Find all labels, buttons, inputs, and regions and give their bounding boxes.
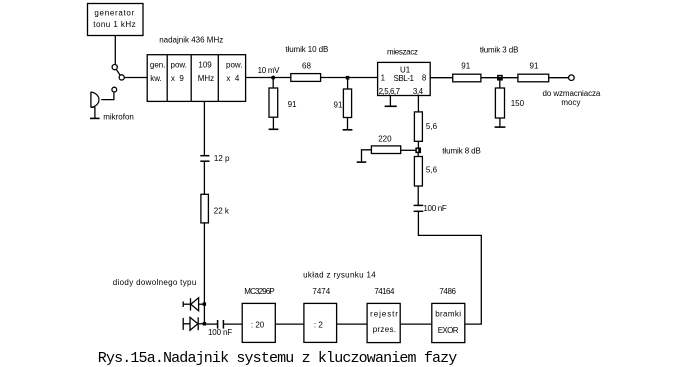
capacitor 100 nF vertical [414,204,447,213]
wire diode node to capacitor 100 nF [204,323,217,325]
svg-text:mikrofon: mikrofon [103,113,134,122]
svg-text:5,6: 5,6 [426,166,438,175]
EXOR gates 7486 box [432,287,465,343]
wire tap to resistor 5,6 lower [417,152,419,156]
svg-text:2,5,6,7: 2,5,6,7 [379,87,401,96]
nadajnik block U2 [147,55,245,102]
svg-text:3,4: 3,4 [413,87,424,96]
ground under resistor 220 [357,161,367,163]
svg-text:220: 220 [378,134,392,143]
wire resistor 68 to mixer [321,77,378,79]
svg-text:7474: 7474 [312,287,330,296]
series resistor 91 fourth [518,62,549,82]
wire capacitor to MC3296P box [223,323,242,325]
svg-text:mieszacz: mieszacz [387,48,418,57]
diode D1 top pointing left [183,298,203,311]
svg-text:150: 150 [511,99,525,108]
output terminal circle [569,75,575,81]
switch S1 [112,65,124,81]
shift register 74164 box [367,287,400,343]
wire resistor 220 to ground [362,150,372,162]
svg-text:74164: 74164 [374,287,395,296]
svg-text:: 20: : 20 [251,320,265,329]
mixer ground pin 2,5,6,7 [385,96,397,107]
svg-text:przes.: przes. [373,325,397,334]
wire capacitor to EXOR gates [418,211,481,324]
svg-text:pow.: pow. [226,60,242,69]
junction dot diode D1 [203,302,206,305]
divider MC3296P box [242,287,275,342]
shunt resistor 91 first [269,80,297,129]
svg-text:rejestr: rejestr [370,309,399,318]
svg-text:91: 91 [288,100,297,109]
svg-text:x 9: x 9 [171,74,184,83]
svg-text:91: 91 [334,100,343,109]
svg-text:diody dowolnego typu: diody dowolnego typu [113,278,197,287]
svg-text:: 2: : 2 [314,320,323,329]
svg-text:pow.: pow. [171,60,187,69]
svg-text:nadajnik 436 MHz: nadajnik 436 MHz [159,36,223,45]
resistor 5,6 lower [414,157,437,187]
svg-text:68: 68 [302,61,311,70]
wire nadajnik 109 MHz down [203,101,205,155]
svg-text:generator: generator [94,8,135,17]
junction square at 8 dB tap [416,148,420,152]
wire MC3296P to 7474 [275,323,304,325]
svg-text:100 nF: 100 nF [423,204,447,213]
svg-text:12 p: 12 p [214,154,230,163]
wire 74164 to 7486 [400,323,432,325]
capacitor 12 p [200,154,230,163]
svg-text:91: 91 [530,62,539,71]
junction dot at 10 mV node [271,76,275,80]
svg-text:układ z rysunku 14: układ z rysunku 14 [303,270,376,279]
svg-text:22 k: 22 k [214,207,230,216]
series resistor 91 third [453,62,481,82]
do wzmacniacza mocy label [543,89,601,107]
ground under resistor 91 second [343,129,353,131]
shunt resistor 91 second [334,80,352,130]
resistor 5,6 upper [414,112,437,141]
svg-text:100 nF: 100 nF [208,328,232,337]
svg-text:bramki: bramki [435,309,461,318]
svg-text:do wzmacniacza: do wzmacniacza [543,89,601,98]
wire resistor 5,6 lower to capacitor [417,186,419,205]
generator box G1 [88,4,144,36]
wire resistor 5,6 upper to tap [417,141,419,148]
wire generator to switch [114,36,116,65]
wire capacitor 12p to resistor 22k [203,161,205,194]
wire nadajnik to resistor 68 [246,77,291,79]
wire 7474 to 74164 [337,323,368,325]
svg-text:109: 109 [198,60,212,69]
wire resistor 22k down to diode node [203,223,205,324]
ground under resistor 91 first [269,128,279,130]
svg-text:EXOR: EXOR [438,326,459,335]
svg-text:SBL-1: SBL-1 [394,74,415,83]
junction dot before shunt resistor 91 second [346,76,350,80]
svg-text:x 4: x 4 [226,74,239,83]
junction square at attenuator tap [497,76,502,81]
resistor 220 [371,134,416,153]
mixer U1 SBL-1 [378,62,431,95]
svg-text:7486: 7486 [439,287,456,296]
svg-text:Rys.15a.Nadajnik systemu z klu: Rys.15a.Nadajnik systemu z kluczowaniem … [98,350,458,367]
svg-text:tłumik 3 dB: tłumik 3 dB [480,45,518,54]
svg-text:1: 1 [381,74,386,83]
ground under resistor 150 [495,126,506,128]
divider 7474 box [304,287,337,342]
wire mixer pin 8 to attenuator [430,77,453,79]
wire mic contact to microphone [101,92,114,100]
svg-text:tonu 1 kHz: tonu 1 kHz [93,20,136,29]
mic contact node [112,87,117,92]
resistor 22 k [201,194,230,223]
svg-text:MC3296P: MC3296P [244,287,274,296]
svg-text:gen.: gen. [150,60,166,69]
svg-text:5,6: 5,6 [426,122,438,131]
svg-text:MHz: MHz [198,74,214,83]
wire resistor 91 third to fourth [481,77,518,79]
wire switch to nadajnik box [124,77,147,79]
resistor 68 [291,61,321,81]
svg-text:mocy: mocy [561,98,580,107]
wire resistor 91 fourth to output terminal [549,77,569,79]
diode D2 bottom pointing right [183,317,203,330]
svg-text:91: 91 [461,62,470,71]
svg-text:tłumik 8 dB: tłumik 8 dB [442,146,480,155]
shunt resistor 150 [495,80,524,127]
svg-text:tłumik 10 dB: tłumik 10 dB [285,45,328,54]
wire mixer pin 3,4 down [417,96,419,112]
microphone MIC [90,92,134,122]
junction dot diode D2 [203,322,206,325]
svg-text:10 mV: 10 mV [258,66,281,75]
capacitor 100 nF horizontal [208,320,232,337]
svg-text:kw.: kw. [150,74,162,83]
svg-text:8: 8 [422,74,427,83]
